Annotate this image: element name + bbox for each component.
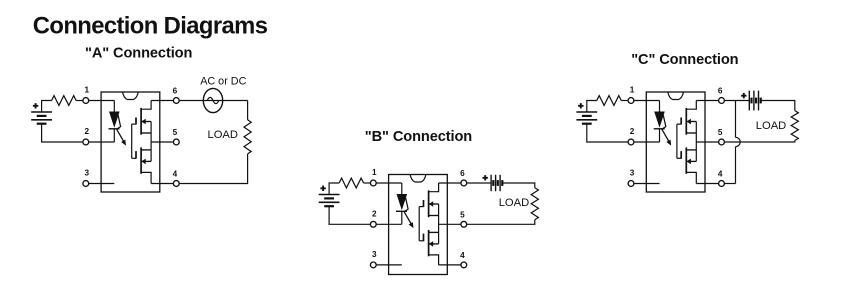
svg-text:"C" Connection: "C" Connection (631, 52, 738, 68)
svg-text:2: 2 (85, 127, 90, 136)
load resistor RB2 (531, 188, 538, 220)
terminal pin 1 (628, 86, 635, 104)
wire load resistor back to pin 5 (464, 220, 535, 225)
wire pin 4 out of package (696, 183, 721, 185)
svg-text:5: 5 (173, 128, 178, 137)
plus polarity mark for battery VB1 (320, 186, 325, 191)
svg-text:1: 1 (630, 86, 635, 95)
svg-text:3: 3 (630, 169, 635, 178)
load resistor RA2 (244, 120, 251, 154)
resistor RC1 (LED current limit) (597, 96, 622, 106)
wire pin 6 out of package (151, 100, 176, 102)
svg-text:5: 5 (460, 210, 465, 219)
MOSFET QC2 (bottom, drain to pin 4) (677, 147, 696, 183)
wire battery- to pin 2 (587, 124, 631, 142)
wire resistor RC1 to pin 1 (621, 100, 631, 102)
terminal pin 5 (460, 210, 467, 227)
resistor RB1 (LED current limit) (339, 178, 364, 188)
wire battery- to pin 2 (329, 206, 373, 224)
LED DB1 (infrared emitter) (396, 183, 407, 224)
terminal pin 6 (718, 87, 725, 104)
wire pin 2 into package (LED cathode) (373, 223, 402, 225)
optocoupler package UB1 (6-pin DIP outline) (389, 175, 448, 275)
gate tie line between QB1 and QB2 (418, 207, 420, 241)
svg-text:3: 3 (85, 169, 90, 178)
label "LOAD" (208, 129, 238, 141)
AC/DC source VA2 (ellipse with sine) (203, 88, 222, 112)
svg-text:"B" Connection: "B" Connection (365, 129, 472, 145)
terminal pin 1 (370, 168, 377, 186)
terminal pin 2 (628, 127, 635, 145)
title (33, 13, 268, 40)
wire pin 3 stub (no internal connection) (86, 183, 115, 185)
svg-text:4: 4 (460, 251, 465, 260)
wire pin 1 into package (LED anode) (373, 182, 402, 184)
svg-text:5: 5 (718, 128, 723, 137)
svg-text:4: 4 (718, 170, 723, 179)
svg-text:3: 3 (372, 250, 377, 259)
wire battery VC2 to load resistor (761, 101, 795, 111)
wire pin 3 stub (no internal connection) (373, 264, 402, 266)
pin 1 index notch of UA1 (123, 92, 139, 100)
MOSFET QB2 (bottom, drain to pin 4) (419, 230, 438, 265)
common source node tie (to pin 5) (439, 204, 464, 244)
wire resistor RB1 to pin 1 (364, 182, 374, 184)
common source node tie (to pin 5) (696, 122, 721, 162)
terminal pin 6 (173, 87, 180, 104)
wire battery+ to resistor RA1 (42, 101, 52, 113)
common source node tie (to pin 5) (151, 122, 176, 162)
wire battery+ to resistor RB1 (329, 183, 339, 195)
terminal pin 6 (460, 169, 467, 186)
terminal pin 4 (460, 251, 467, 268)
terminal pin 4 (173, 170, 180, 187)
pin 1 index notch of UB1 (410, 175, 426, 183)
wire pin 2 into package (LED cathode) (631, 141, 660, 143)
wire pin 6 out of package (696, 100, 721, 102)
tie wire pin 6 to pin 4 (hops over pin 5 wire) (736, 101, 741, 184)
wire pin 1 into package (LED anode) (631, 100, 660, 102)
light emission arrow from DC1 to gates (662, 115, 671, 145)
svg-text:LOAD: LOAD (208, 129, 238, 141)
wire pin 6 to battery VB2 (464, 182, 491, 184)
terminal pin 3 (370, 250, 377, 268)
wire pin 6 out of package (439, 182, 464, 184)
wire pin 6 to battery VC2 (722, 100, 750, 102)
terminal pin 5 (173, 128, 180, 145)
light emission arrow from DB1 to gates (404, 198, 413, 228)
plus polarity mark for battery VA1 (33, 103, 38, 108)
light emission arrow from DA1 to gates (117, 115, 126, 145)
svg-text:LOAD: LOAD (499, 197, 529, 209)
terminal pin 2 (83, 127, 90, 145)
svg-text:1: 1 (372, 168, 377, 177)
MOSFET QB1 (top, drain to pin 6) (419, 183, 438, 217)
wire pin 2 into package (LED cathode) (86, 141, 115, 143)
terminal pin 4 (718, 170, 725, 187)
wire pin 4 out of package (151, 183, 176, 185)
label "AC or DC" (200, 75, 246, 87)
svg-text:Connection Diagrams: Connection Diagrams (33, 13, 268, 40)
LED DA1 (infrared emitter) (109, 101, 120, 143)
LED DC1 (infrared emitter) (654, 101, 665, 143)
svg-text:LOAD: LOAD (756, 120, 786, 132)
subtitle C (631, 52, 738, 68)
plus polarity mark for battery VC1 (578, 103, 583, 108)
MOSFET QA1 (top, drain to pin 6) (132, 101, 151, 135)
svg-text:6: 6 (718, 87, 723, 96)
gate tie line between QC1 and QC2 (676, 124, 678, 158)
resistor RA1 (LED current limit) (52, 96, 77, 106)
wire pin 3 stub (no internal connection) (631, 183, 660, 185)
wire pin 4 out of package (439, 264, 464, 266)
wire pin 6 through AC source to load corner (176, 100, 247, 102)
terminal pin 3 (628, 169, 635, 187)
wire battery+ to resistor RC1 (587, 101, 597, 113)
gate tie line between QA1 and QA2 (131, 124, 133, 158)
plus polarity mark for battery VB2 (483, 175, 488, 180)
label "LOAD" (756, 120, 786, 132)
wire load resistor back to pin 4 (176, 154, 247, 184)
wire resistor RA1 to pin 1 (76, 100, 86, 102)
terminal pin 1 (83, 86, 90, 104)
subtitle B (365, 129, 472, 145)
wire corner down to load resistor (247, 101, 249, 120)
optocoupler package UC1 (6-pin DIP outline) (646, 92, 705, 192)
terminal pin 5 (718, 128, 725, 145)
svg-text:6: 6 (173, 87, 178, 96)
label "LOAD" (499, 197, 529, 209)
MOSFET QC1 (top, drain to pin 6) (677, 101, 696, 135)
MOSFET QA2 (bottom, drain to pin 4) (132, 147, 151, 183)
pin 1 index notch of UC1 (668, 92, 684, 100)
svg-text:2: 2 (372, 209, 377, 218)
wire load resistor back to pin 5 (722, 141, 795, 143)
wire pin 4 to tie line (722, 183, 736, 185)
wire pin 1 into package (LED anode) (86, 100, 115, 102)
load resistor RC2 (791, 111, 798, 141)
terminal pin 3 (83, 169, 90, 187)
battery VB2 (output DC source) (491, 175, 502, 191)
svg-text:1: 1 (85, 86, 90, 95)
battery VB1 (input DC source) (319, 195, 340, 207)
subtitle A (85, 46, 192, 62)
svg-text:6: 6 (460, 169, 465, 178)
terminal pin 2 (370, 209, 377, 227)
plus polarity mark for battery VC2 (741, 93, 746, 98)
svg-text:2: 2 (630, 127, 635, 136)
battery VC1 (input DC source) (576, 112, 597, 124)
svg-text:"A" Connection: "A" Connection (85, 46, 192, 62)
wire battery VB2 to load resistor (503, 183, 535, 188)
optocoupler package UA1 (6-pin DIP outline) (101, 92, 160, 192)
battery VC2 (output DC source) (749, 91, 760, 111)
svg-text:AC or DC: AC or DC (200, 75, 246, 87)
wire battery- to pin 2 (42, 124, 86, 142)
battery VA1 (input DC source) (31, 112, 52, 124)
svg-text:4: 4 (173, 170, 178, 179)
